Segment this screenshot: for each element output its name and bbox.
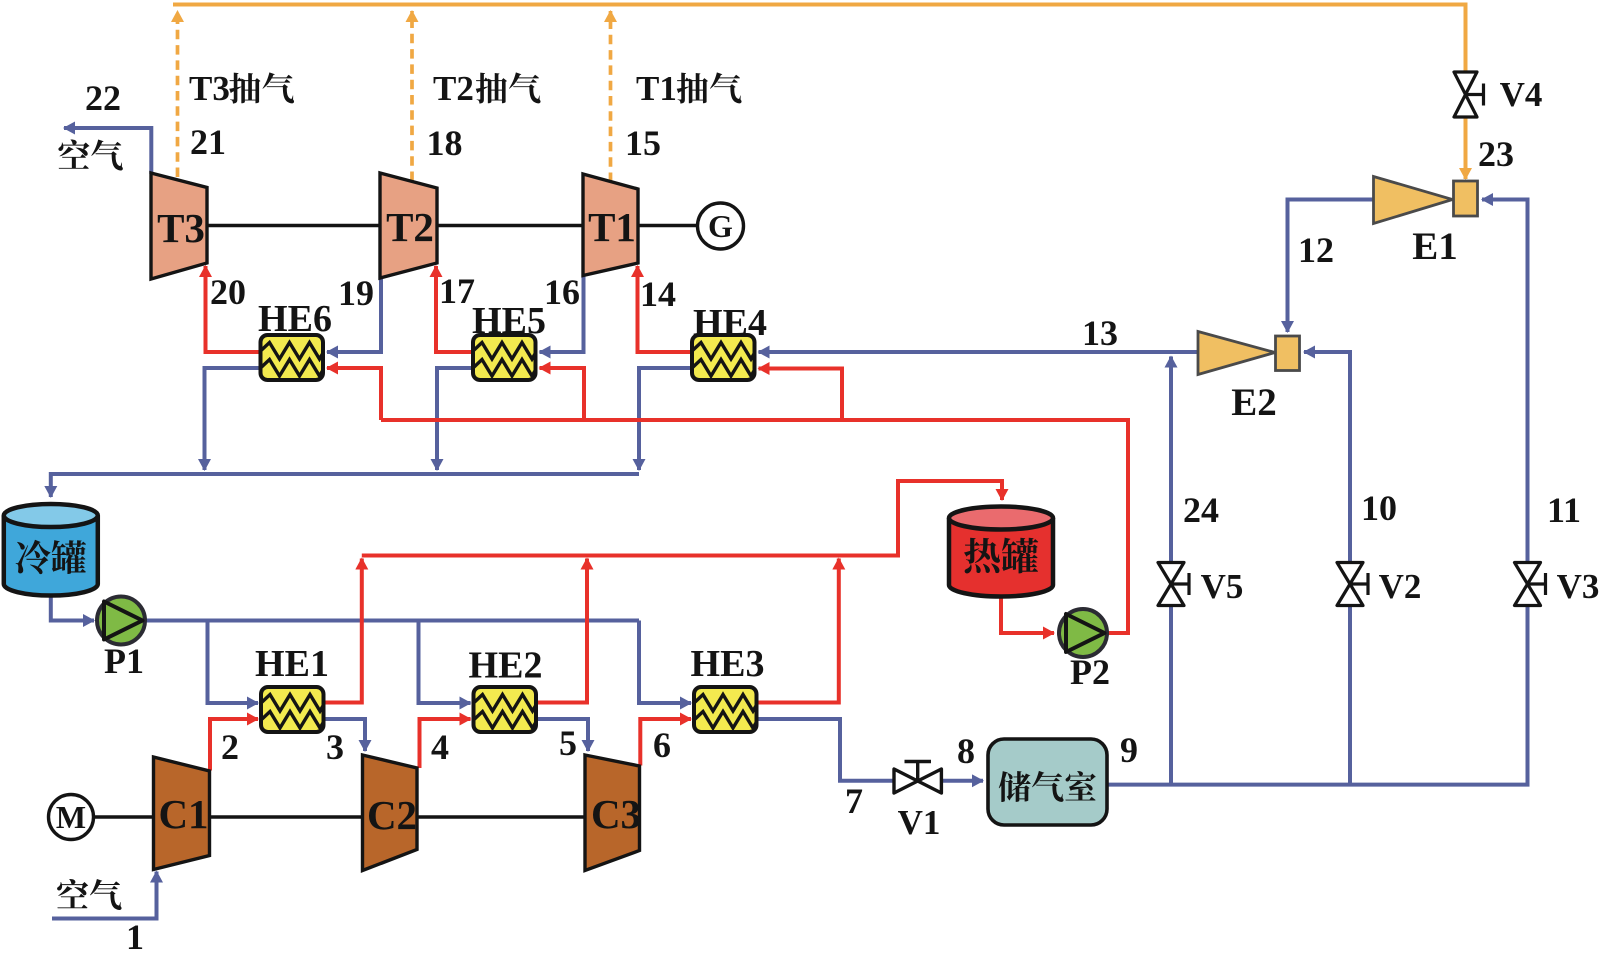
svg-text:22: 22 — [85, 78, 121, 118]
motor M — [49, 795, 94, 840]
wire HE4 cold horizontal — [637, 366, 692, 370]
valve V3 — [1515, 563, 1546, 606]
wire hot water collector to hot tank — [362, 481, 1002, 556]
svg-text:V1: V1 — [898, 803, 941, 842]
valve V1 — [894, 762, 941, 794]
heat exchanger HE5 — [473, 335, 536, 380]
svg-text:T2: T2 — [433, 69, 474, 108]
svg-text:HE1: HE1 — [255, 643, 329, 685]
wire HE4 cold water out to bus — [637, 368, 641, 470]
wire 16 T1 exhaust to HE5 — [540, 276, 584, 352]
wire cold tank to pump P1 — [51, 596, 94, 621]
wire HE2 water feed — [419, 621, 471, 704]
wire cold water return bus to cold tank — [51, 474, 639, 497]
svg-text:C1: C1 — [158, 791, 208, 837]
wire HE3 water feed — [639, 621, 691, 704]
turbine T2 — [380, 173, 437, 278]
svg-text:19: 19 — [338, 273, 374, 313]
svg-text:HE3: HE3 — [691, 643, 765, 685]
svg-text:T3: T3 — [189, 69, 230, 108]
wire 13 storage air to HE4 — [759, 350, 1199, 354]
svg-text:9: 9 — [1120, 730, 1138, 770]
compressor C1 — [154, 757, 210, 870]
wire 17 horizontal — [434, 350, 473, 354]
svg-text:HE5: HE5 — [472, 300, 546, 342]
wire 24 V5 riser to line 13 — [1169, 357, 1173, 785]
svg-text:E1: E1 — [1412, 225, 1458, 268]
wire 17 HE5 to T2 — [434, 266, 438, 352]
compressor C2 — [363, 755, 418, 871]
svg-text:14: 14 — [640, 274, 676, 314]
svg-text:20: 20 — [210, 272, 246, 312]
air storage cavern — [988, 739, 1107, 825]
svg-text:T3: T3 — [157, 205, 205, 251]
heat exchanger HE6 — [261, 335, 324, 380]
wire HE6 hot water in — [327, 368, 381, 420]
wire HE2 air out to C3 — [536, 719, 588, 751]
compressor shaft C1 to C2 — [210, 815, 363, 818]
svg-text:4: 4 — [431, 727, 449, 767]
svg-text:1: 1 — [126, 917, 144, 951]
svg-text:C3: C3 — [591, 791, 641, 837]
turbine shaft to generator — [638, 224, 698, 227]
wire 9 and 11 storage to ejector E1 — [1108, 200, 1528, 785]
wire 8 V1 to storage — [942, 779, 983, 783]
turbine shaft — [207, 224, 380, 227]
svg-text:HE6: HE6 — [258, 298, 332, 340]
svg-text:2: 2 — [221, 727, 239, 767]
pump P2 — [1059, 609, 1107, 657]
compressor shaft motor to C1 — [94, 815, 154, 818]
svg-text:V2: V2 — [1379, 567, 1422, 606]
cold tank — [4, 504, 98, 596]
wire 19 T2 exhaust to HE6 — [327, 278, 381, 352]
svg-text:V4: V4 — [1500, 75, 1543, 114]
valve V2 — [1337, 563, 1368, 606]
generator G — [698, 203, 744, 249]
svg-text:T1: T1 — [588, 204, 636, 250]
svg-text:V3: V3 — [1557, 567, 1600, 606]
svg-text:5: 5 — [559, 723, 577, 763]
svg-text:23: 23 — [1478, 134, 1514, 174]
wire 10 V2 riser to ejector E2 — [1304, 352, 1350, 785]
wire 4 C2 to HE2 — [420, 719, 471, 768]
wire HE5 cold water out to bus — [437, 368, 473, 470]
heat exchanger HE2 — [474, 687, 537, 732]
svg-text:HE2: HE2 — [469, 645, 543, 687]
heat exchanger HE4 — [692, 335, 755, 380]
wire HE2 hot water out — [536, 559, 587, 703]
compressor shaft C2 to C3 — [417, 815, 585, 818]
svg-text:7: 7 — [845, 781, 863, 821]
heat exchanger HE3 — [694, 687, 757, 732]
wire 20 HE6 to T3 — [206, 266, 262, 352]
svg-text:17: 17 — [439, 271, 475, 311]
wire 23 V4 to ejector E1 — [1464, 117, 1468, 179]
wire orange extraction bus — [173, 5, 1466, 73]
svg-text:12: 12 — [1298, 230, 1334, 270]
wire HE1 air out to C2 — [324, 719, 365, 751]
wire 1 air intake to C1 — [52, 872, 157, 919]
wire 7 HE3 to valve V1 — [757, 719, 893, 781]
heat exchanger HE1 — [261, 687, 324, 732]
wire 12 E1 to E2 — [1288, 200, 1374, 333]
compressor C3 — [585, 755, 641, 871]
pump P1 — [97, 597, 145, 645]
wire T1 extraction dashed 15 — [609, 11, 613, 182]
svg-text:G: G — [708, 208, 733, 244]
label air in 1 — [57, 879, 121, 910]
wire 14 HE4 to T1 — [636, 266, 640, 352]
wire HE3 hot water out — [757, 559, 839, 703]
wire P1 cold water main — [145, 619, 639, 623]
wire HE1 water feed — [208, 621, 259, 704]
svg-text:T2: T2 — [386, 204, 434, 250]
svg-text:C2: C2 — [367, 792, 417, 838]
svg-text:3: 3 — [326, 727, 344, 767]
svg-text:8: 8 — [957, 731, 975, 771]
ejector E1 — [1374, 177, 1478, 224]
svg-text:E2: E2 — [1231, 381, 1277, 424]
wire T2 extraction dashed 18 — [410, 11, 414, 181]
wire 22 air outlet from T3 — [64, 128, 151, 174]
svg-text:6: 6 — [653, 725, 671, 765]
svg-text:21: 21 — [190, 122, 226, 162]
label air out 22 — [58, 140, 122, 171]
wire HE4 hot water in — [759, 369, 843, 421]
svg-text:P1: P1 — [104, 641, 144, 681]
svg-text:HE4: HE4 — [693, 302, 767, 344]
wire 2 C1 to HE1 — [210, 719, 258, 771]
valve V5 — [1158, 563, 1189, 606]
svg-text:10: 10 — [1361, 488, 1397, 528]
svg-text:24: 24 — [1183, 490, 1219, 530]
valve V4 — [1454, 72, 1484, 117]
wire T3 extraction dashed 21 — [176, 11, 180, 177]
svg-text:18: 18 — [427, 123, 463, 163]
wire hot supply bus from P2 — [381, 420, 1128, 633]
svg-text:16: 16 — [544, 272, 580, 312]
hot tank — [949, 507, 1053, 597]
ejector E2 — [1198, 332, 1300, 375]
wire HE5 hot water in — [540, 368, 585, 420]
turbine T1 — [583, 174, 638, 276]
svg-text:15: 15 — [625, 123, 661, 163]
wire 6 C3 to HE3 — [640, 719, 691, 766]
wire HE1 hot water out — [324, 559, 362, 703]
turbine shaft 2 — [437, 224, 583, 227]
svg-text:T1: T1 — [636, 69, 677, 108]
svg-text:P2: P2 — [1070, 652, 1110, 692]
svg-text:11: 11 — [1547, 490, 1581, 530]
svg-text:M: M — [56, 799, 86, 835]
wire HE6 cold water out to bus — [205, 368, 262, 470]
wire hot tank to pump P2 — [1001, 597, 1054, 634]
svg-text:V5: V5 — [1201, 567, 1244, 606]
turbine T3 — [151, 173, 207, 279]
wire 14 horizontal — [636, 350, 693, 354]
svg-text:13: 13 — [1082, 313, 1118, 353]
